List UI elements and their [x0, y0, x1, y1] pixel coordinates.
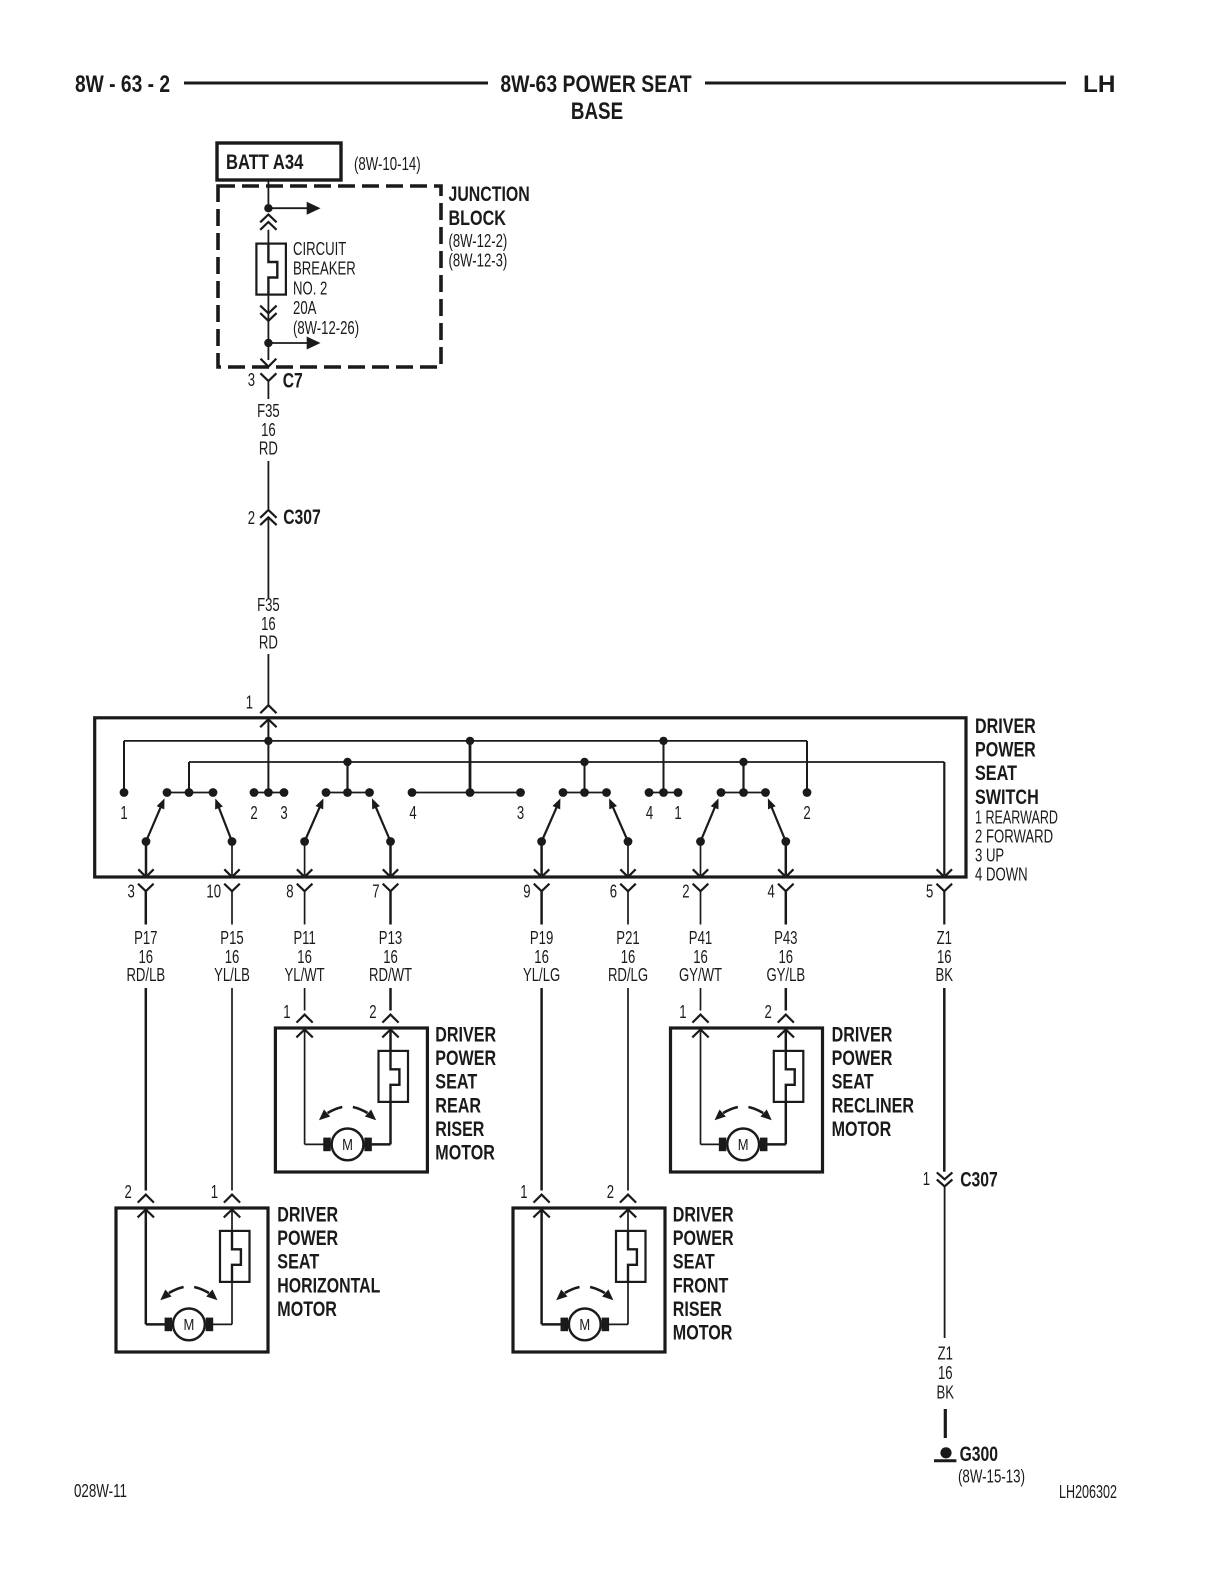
- driver power seat horizontal motor motor M: [165, 1309, 214, 1341]
- driver power seat front riser motor pin 2 connector fork: [620, 1195, 636, 1203]
- bus1 drop to group B center: [469, 741, 472, 793]
- wire label P21 16 RD/LG: [608, 928, 648, 985]
- driver power seat rear riser motor rotation arrows: [319, 1107, 376, 1120]
- driver power seat recliner motor pin 2 label: [765, 1002, 772, 1022]
- switch S2 left pole arrow: [305, 798, 324, 841]
- svg-text:4: 4: [646, 803, 653, 823]
- svg-text:DRIVER: DRIVER: [277, 1203, 338, 1227]
- svg-text:Z1: Z1: [938, 1344, 953, 1364]
- wire breaker to splice: [267, 295, 269, 339]
- switch S2 right pole wire: [383, 842, 398, 877]
- svg-text:F35: F35: [257, 401, 280, 421]
- svg-text:BK: BK: [936, 965, 954, 985]
- svg-text:DRIVER: DRIVER: [673, 1203, 734, 1227]
- svg-text:LH206302: LH206302: [1059, 1482, 1117, 1502]
- bus1 drop to contact 1: [123, 741, 125, 789]
- svg-text:YL/LG: YL/LG: [523, 965, 560, 985]
- svg-text:2: 2: [803, 803, 810, 823]
- header label LH: [1083, 71, 1115, 98]
- junction block internal connector (up chevrons): [260, 215, 276, 230]
- driver power seat recliner motor pin 1 connector fork: [692, 1015, 708, 1023]
- driver power seat rear riser motor internal circuit breaker: [379, 1051, 409, 1102]
- driver power seat rear riser motor pin 1 label: [283, 1002, 290, 1022]
- driver power seat front riser motor label: [673, 1203, 734, 1345]
- driver power seat horizontal motor rotation arrows: [160, 1287, 217, 1300]
- svg-text:4: 4: [409, 803, 416, 823]
- svg-text:MOTOR: MOTOR: [435, 1141, 495, 1165]
- svg-text:DRIVER: DRIVER: [975, 714, 1036, 738]
- header rule right: [705, 82, 1066, 85]
- driver power seat front riser motor pin 2 male chevron: [620, 1210, 636, 1218]
- switch S3 stationary contacts: [559, 788, 611, 797]
- svg-text:P19: P19: [530, 928, 553, 948]
- driver power seat recliner motor label: [832, 1023, 915, 1141]
- svg-text:1: 1: [679, 1002, 686, 1022]
- svg-text:(8W-10-14): (8W-10-14): [354, 154, 421, 174]
- svg-text:RD/WT: RD/WT: [369, 965, 412, 985]
- driver power seat recliner motor wire 1 internal: [701, 1030, 720, 1145]
- wire label P41 16 GY/WT: [679, 928, 722, 985]
- junction block exit chevrons (down): [260, 306, 276, 321]
- driver power seat front riser motor wire 1 internal: [542, 1210, 561, 1325]
- svg-text:8W-63 POWER SEAT: 8W-63 POWER SEAT: [500, 71, 692, 98]
- driver power seat front riser motor pin 2 label: [607, 1182, 614, 1202]
- switch S3 right pole arrow: [609, 798, 628, 841]
- label (8W-10-14): [354, 154, 421, 174]
- connector C307 name: [283, 505, 321, 529]
- svg-text:3: 3: [248, 370, 255, 390]
- wire P13 to rear riser motor: [389, 988, 392, 1011]
- svg-text:DRIVER: DRIVER: [832, 1023, 893, 1047]
- pin 5 exit arrow: [937, 869, 952, 877]
- svg-text:1: 1: [283, 1002, 290, 1022]
- svg-text:028W-11: 028W-11: [74, 1481, 127, 1501]
- svg-text:JUNCTION: JUNCTION: [449, 182, 530, 206]
- svg-text:16: 16: [383, 947, 398, 967]
- switch pin 1 male chevron: [260, 719, 276, 727]
- switch S3 left pole wire: [534, 842, 549, 877]
- driver power seat recliner motor wire 2 internal: [767, 1030, 786, 1145]
- wire label F35 16 RD (lower): [257, 595, 280, 652]
- svg-text:CIRCUIT: CIRCUIT: [293, 239, 346, 259]
- wire label P43 16 GY/LB: [766, 928, 805, 985]
- wire label P19 16 YL/LG: [523, 928, 560, 985]
- bus2 run to pin 5: [943, 762, 945, 875]
- driver power seat horizontal motor internal circuit breaker: [220, 1231, 250, 1282]
- splice node (upper): [264, 204, 272, 212]
- driver power seat front riser motor pin 1 label: [520, 1182, 527, 1202]
- driver power seat rear riser motor pin 2 connector fork: [382, 1015, 398, 1023]
- switch S1 (seat rearward/forward?) right pole arrow: [215, 799, 232, 842]
- driver power seat rear riser motor pin 1 connector fork: [297, 1015, 313, 1023]
- svg-text:SWITCH: SWITCH: [975, 785, 1039, 809]
- switch S2 pole contacts: [300, 837, 395, 846]
- driver power seat front riser motor motor M: [561, 1309, 610, 1341]
- wire Z1 to connector C307: [943, 988, 946, 1172]
- switch contact 1 (left): [120, 788, 129, 797]
- svg-text:SEAT: SEAT: [435, 1070, 477, 1094]
- svg-text:16: 16: [139, 947, 154, 967]
- svg-text:F35: F35: [257, 595, 280, 615]
- wire P17 to horizontal motor: [145, 988, 148, 1191]
- switch bus wire 1: [124, 740, 807, 742]
- switch pin 3 connector fork: [138, 884, 154, 925]
- svg-text:G300: G300: [960, 1442, 998, 1466]
- page title BASE: [571, 98, 623, 125]
- driver power seat rear riser motor box: [275, 1028, 427, 1172]
- wire BATT A34 feed: [267, 180, 269, 204]
- label (8W-15-13): [958, 1467, 1025, 1487]
- svg-text:1: 1: [520, 1182, 527, 1202]
- driver power seat horizontal motor box: [116, 1208, 268, 1352]
- footer sheet number 028W-11: [74, 1481, 127, 1501]
- driver power seat recliner motor box: [671, 1028, 823, 1172]
- driver power seat horizontal motor pin 1 connector fork: [224, 1195, 240, 1203]
- ground G300 name: [960, 1442, 998, 1466]
- driver power seat rear riser motor label: [435, 1023, 496, 1165]
- svg-text:POWER: POWER: [975, 738, 1036, 762]
- switch pin 7 connector fork: [383, 884, 399, 925]
- driver power seat rear riser motor wire 2 internal: [372, 1030, 391, 1145]
- wire to circuit breaker: [267, 230, 269, 244]
- bus1 splice at feed: [264, 737, 272, 745]
- svg-text:LH: LH: [1083, 71, 1115, 98]
- switch pin 9 connector fork: [534, 884, 550, 925]
- svg-text:1: 1: [120, 803, 127, 823]
- svg-text:RISER: RISER: [435, 1117, 484, 1141]
- svg-text:C7: C7: [283, 369, 303, 393]
- driver power seat horizontal motor pin 2 label: [125, 1182, 132, 1202]
- svg-text:2 FORWARD: 2 FORWARD: [975, 826, 1053, 846]
- switch S3 right pole wire: [620, 842, 635, 877]
- svg-text:5: 5: [926, 882, 933, 902]
- svg-text:3: 3: [517, 803, 524, 823]
- connector C7 female fork: [260, 373, 276, 399]
- switch S2 left pole wire: [297, 842, 312, 877]
- switch pin 8 label: [286, 882, 293, 902]
- svg-text:(8W-12-26): (8W-12-26): [293, 318, 359, 338]
- bus2 drop to S2 center: [346, 762, 348, 789]
- svg-text:P43: P43: [774, 928, 797, 948]
- svg-text:2: 2: [125, 1182, 132, 1202]
- wire label Z1 16 BK: [936, 928, 954, 985]
- svg-text:10: 10: [206, 882, 221, 902]
- svg-text:16: 16: [534, 947, 549, 967]
- svg-text:POWER: POWER: [673, 1226, 734, 1250]
- driver power seat recliner motor pin 2 connector fork: [778, 1015, 794, 1023]
- driver power seat rear riser motor pin 2 label: [369, 1002, 376, 1022]
- driver power seat horizontal motor wire 1 internal: [146, 1210, 165, 1325]
- svg-text:16: 16: [261, 420, 276, 440]
- svg-text:P17: P17: [134, 928, 157, 948]
- wire label Z1 16 BK (lower): [937, 1344, 955, 1403]
- bus2 splice at S3: [580, 758, 588, 766]
- driver power seat front riser motor wire 2 internal: [609, 1210, 628, 1325]
- switch S4 stationary contacts: [717, 788, 770, 797]
- driver power seat recliner motor internal circuit breaker: [774, 1051, 804, 1102]
- svg-text:1: 1: [674, 803, 681, 823]
- connector C7 male arrow: [261, 359, 277, 367]
- wire into switch pin 1: [267, 654, 269, 705]
- svg-text:4: 4: [768, 882, 775, 902]
- svg-text:C307: C307: [283, 505, 321, 529]
- svg-text:8W - 63 - 2: 8W - 63 - 2: [75, 71, 170, 98]
- svg-text:M: M: [738, 1137, 749, 1154]
- svg-text:NO. 2: NO. 2: [293, 278, 327, 298]
- arrow to other circuits (upper): [268, 202, 320, 215]
- contact group A (2,3): [250, 788, 289, 797]
- circuit breaker label: [293, 239, 359, 338]
- wire P11 to rear riser motor: [304, 988, 306, 1011]
- svg-text:16: 16: [779, 947, 794, 967]
- contact group C (4,1): [645, 788, 683, 797]
- splice node (lower): [264, 339, 272, 347]
- switch S4 pole contacts: [696, 837, 790, 846]
- wire Z1 final segment: [944, 1409, 947, 1438]
- svg-text:RD/LG: RD/LG: [608, 965, 648, 985]
- svg-text:BK: BK: [937, 1383, 955, 1403]
- svg-text:GY/WT: GY/WT: [679, 965, 722, 985]
- switch S1 (seat rearward/forward?) left pole arrow: [146, 798, 165, 841]
- svg-text:7: 7: [372, 882, 379, 902]
- svg-text:P21: P21: [616, 928, 639, 948]
- driver power seat horizontal motor wire 2 internal: [213, 1210, 232, 1325]
- svg-text:RECLINER: RECLINER: [832, 1093, 915, 1117]
- svg-text:M: M: [184, 1317, 195, 1334]
- svg-text:SEAT: SEAT: [277, 1250, 319, 1274]
- switch pin 4 label: [768, 882, 775, 902]
- switch pin 1 connector fork: [260, 705, 276, 713]
- svg-text:2: 2: [248, 508, 255, 528]
- switch S1 (seat rearward/forward?) left pole wire: [138, 842, 153, 877]
- svg-text:DRIVER: DRIVER: [435, 1023, 496, 1047]
- switch pin 5 connector fork: [937, 884, 953, 925]
- driver power seat recliner motor motor M: [719, 1129, 768, 1161]
- arrow to other circuits (lower): [268, 337, 320, 350]
- svg-text:POWER: POWER: [832, 1046, 893, 1070]
- svg-text:16: 16: [225, 947, 240, 967]
- svg-text:(8W-12-2): (8W-12-2): [449, 231, 508, 251]
- svg-text:SEAT: SEAT: [673, 1250, 715, 1274]
- switch S4 right pole arrow: [768, 798, 786, 841]
- svg-text:MOTOR: MOTOR: [832, 1117, 892, 1141]
- switch pin 1 label: [246, 693, 253, 713]
- connector C307 lower pin 1 label: [923, 1169, 930, 1189]
- svg-text:2: 2: [607, 1182, 614, 1202]
- switch S2 stationary contacts: [322, 788, 374, 797]
- bus1 drop to group C center: [663, 741, 665, 793]
- svg-text:SEAT: SEAT: [832, 1070, 874, 1094]
- wire P15 to horizontal motor: [231, 988, 233, 1191]
- switch pin 10 label: [206, 882, 221, 902]
- svg-text:20A: 20A: [293, 298, 316, 318]
- driver power seat rear riser motor pin 1 male chevron: [296, 1030, 312, 1038]
- driver power seat front riser motor pin 1 connector fork: [534, 1195, 550, 1203]
- svg-text:2: 2: [250, 803, 257, 823]
- driver power seat recliner motor rotation arrows: [715, 1107, 772, 1120]
- contact group B (4,3): [408, 788, 525, 797]
- contact group C labels: [646, 803, 682, 823]
- switch pin 10 connector fork: [224, 884, 240, 925]
- svg-text:RISER: RISER: [673, 1297, 722, 1321]
- page title 8W-63 POWER SEAT: [500, 71, 692, 98]
- svg-text:BLOCK: BLOCK: [449, 206, 507, 230]
- switch pin 8 connector fork: [297, 884, 313, 925]
- switch contact 2 (right): [803, 788, 812, 797]
- svg-text:16: 16: [937, 947, 952, 967]
- svg-text:P15: P15: [220, 928, 243, 948]
- circuit breaker No. 2 20A: [256, 244, 286, 295]
- wire to connector C7: [267, 347, 269, 360]
- svg-text:HORIZONTAL: HORIZONTAL: [277, 1273, 380, 1297]
- bus1 splice at node B3: [466, 737, 474, 745]
- svg-text:1: 1: [211, 1182, 218, 1202]
- driver power seat front riser motor pin 1 male chevron: [533, 1210, 549, 1218]
- svg-text:9: 9: [523, 882, 530, 902]
- switch pin 9 label: [523, 882, 530, 902]
- driver power seat horizontal motor pin 2 male chevron: [138, 1210, 154, 1218]
- svg-text:SEAT: SEAT: [975, 761, 1017, 785]
- svg-text:16: 16: [261, 614, 276, 634]
- svg-text:2: 2: [682, 882, 689, 902]
- switch S4 left pole wire: [693, 842, 708, 877]
- svg-text:3: 3: [128, 882, 135, 902]
- switch S1 (seat rearward/forward?) stationary contacts: [163, 788, 218, 797]
- svg-text:16: 16: [621, 947, 636, 967]
- svg-text:1: 1: [923, 1169, 930, 1189]
- driver power seat rear riser motor pin 2 male chevron: [382, 1030, 398, 1038]
- svg-text:REAR: REAR: [435, 1093, 481, 1117]
- connector C7 pin 3 label: [248, 370, 255, 390]
- switch S1 (seat rearward/forward?) right pole wire: [224, 842, 239, 877]
- switch S2 right pole arrow: [372, 798, 391, 841]
- wire F35 segment: [267, 461, 269, 510]
- svg-text:MOTOR: MOTOR: [277, 1297, 337, 1321]
- svg-text:1: 1: [246, 693, 253, 713]
- svg-text:C307: C307: [960, 1168, 998, 1192]
- connector C307 chevrons (up): [260, 510, 276, 525]
- svg-text:RD: RD: [259, 632, 278, 652]
- switch S3 left pole arrow: [542, 798, 561, 841]
- switch S4 right pole wire: [778, 842, 793, 877]
- svg-text:M: M: [342, 1137, 353, 1154]
- contact group B labels: [409, 803, 524, 823]
- switch S4 left pole arrow: [701, 798, 719, 841]
- switch contact label 1: [120, 803, 127, 823]
- header page number 8W - 63 - 2: [75, 71, 170, 98]
- driver power seat horizontal motor pin 1 male chevron: [224, 1210, 240, 1218]
- svg-text:6: 6: [610, 882, 617, 902]
- bus2 splice at S2: [343, 758, 351, 766]
- wire F35 segment lower: [267, 517, 269, 598]
- svg-text:MOTOR: MOTOR: [673, 1321, 733, 1345]
- switch pin 6 label: [610, 882, 617, 902]
- svg-text:16: 16: [938, 1363, 953, 1383]
- svg-text:3 UP: 3 UP: [975, 845, 1004, 865]
- driver power seat front riser motor internal circuit breaker: [616, 1231, 646, 1282]
- junction block label: [449, 182, 530, 271]
- svg-text:BREAKER: BREAKER: [293, 259, 356, 279]
- svg-text:8: 8: [286, 882, 293, 902]
- switch pin 2 connector fork: [693, 884, 709, 925]
- svg-text:POWER: POWER: [277, 1226, 338, 1250]
- wire label P13 16 RD/WT: [369, 928, 412, 985]
- svg-text:P13: P13: [379, 928, 402, 948]
- connector C307 lower name: [960, 1168, 998, 1192]
- svg-text:2: 2: [369, 1002, 376, 1022]
- wire pin1 to contact row: [267, 719, 269, 792]
- footer drawing number LH206302: [1059, 1482, 1117, 1502]
- bus2 drop to S3 center: [584, 762, 586, 789]
- driver power seat rear riser motor wire 1 internal: [305, 1030, 324, 1145]
- svg-text:YL/WT: YL/WT: [285, 965, 325, 985]
- svg-text:GY/LB: GY/LB: [766, 965, 805, 985]
- driver power seat horizontal motor pin 2 connector fork: [138, 1195, 154, 1203]
- svg-text:POWER: POWER: [435, 1046, 496, 1070]
- svg-text:16: 16: [693, 947, 708, 967]
- svg-text:2: 2: [765, 1002, 772, 1022]
- switch pin 2 label: [682, 882, 689, 902]
- svg-text:FRONT: FRONT: [673, 1273, 729, 1297]
- svg-text:BATT A34: BATT A34: [226, 150, 303, 174]
- wire Z1 to ground: [944, 1186, 946, 1338]
- wire P43 to recliner motor: [785, 988, 788, 1011]
- ground G300 symbol: [934, 1447, 956, 1461]
- switch S3 pole contacts: [537, 837, 632, 846]
- svg-text:M: M: [579, 1317, 590, 1334]
- svg-text:3: 3: [280, 803, 287, 823]
- driver power seat horizontal motor pin 1 label: [211, 1182, 218, 1202]
- svg-text:(8W-12-3): (8W-12-3): [449, 251, 508, 271]
- driver power seat horizontal motor label: [277, 1203, 380, 1321]
- bus1 drop to contact 2 (right): [806, 741, 808, 789]
- switch pin 6 connector fork: [620, 884, 636, 925]
- switch S1 (seat rearward/forward?) pole contacts: [142, 837, 237, 846]
- svg-text:(8W-15-13): (8W-15-13): [958, 1467, 1025, 1487]
- switch pin 4 connector fork: [778, 884, 794, 925]
- svg-text:P11: P11: [293, 928, 315, 948]
- wire P21 to front riser motor: [627, 988, 629, 1191]
- svg-text:BASE: BASE: [571, 98, 623, 125]
- connector C307 lower (down chevrons): [937, 1172, 953, 1186]
- svg-text:4 DOWN: 4 DOWN: [975, 864, 1028, 884]
- switch pin 7 label: [372, 882, 379, 902]
- battery feed box BATT A34: [217, 143, 341, 180]
- svg-text:P41: P41: [689, 928, 712, 948]
- contact group A labels: [250, 803, 287, 823]
- switch bus wire 2: [189, 761, 944, 763]
- driver power seat front riser motor box: [513, 1208, 665, 1352]
- wire label P11 16 YL/WT: [285, 928, 325, 985]
- switch pin 5 label: [926, 882, 933, 902]
- bus2 splice at S4: [739, 758, 747, 766]
- connector C307 pin 2 label: [248, 508, 255, 528]
- svg-text:YL/LB: YL/LB: [214, 965, 250, 985]
- bus1 splice at node C: [659, 737, 667, 745]
- switch label: [975, 714, 1058, 884]
- wire P41 to recliner motor: [700, 988, 702, 1011]
- svg-text:RD: RD: [259, 439, 278, 459]
- wire label P17 16 RD/LB: [126, 928, 165, 985]
- svg-text:RD/LB: RD/LB: [126, 965, 165, 985]
- wire P19 to front riser motor: [540, 988, 543, 1191]
- bus2 drop to S1 center: [188, 762, 190, 789]
- header rule left: [184, 82, 488, 85]
- driver power seat rear riser motor motor M: [323, 1129, 372, 1161]
- svg-text:1 REARWARD: 1 REARWARD: [975, 807, 1058, 827]
- svg-text:Z1: Z1: [937, 928, 952, 948]
- svg-text:16: 16: [297, 947, 312, 967]
